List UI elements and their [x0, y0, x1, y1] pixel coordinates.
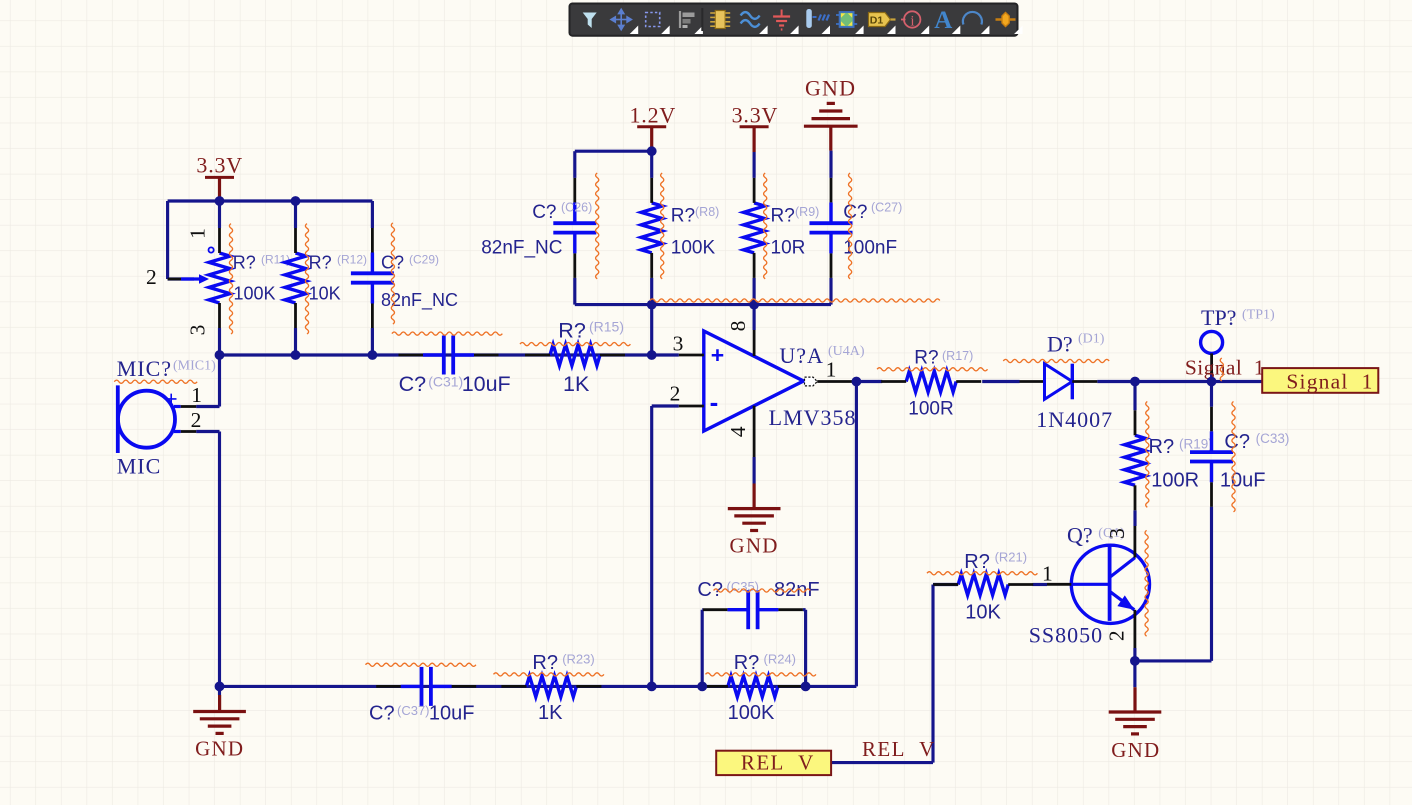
svg-text:R?: R?	[558, 319, 586, 343]
svg-text:(R21): (R21)	[995, 550, 1028, 565]
svg-text:10uF: 10uF	[1220, 470, 1266, 492]
svg-text:(R15): (R15)	[589, 319, 624, 335]
svg-text:(TP1): (TP1)	[1242, 308, 1275, 323]
svg-text:SS8050: SS8050	[1029, 623, 1103, 648]
svg-text:(C31): (C31)	[428, 374, 463, 390]
power 1.2V	[630, 103, 677, 152]
svg-text:A: A	[934, 7, 952, 34]
power GND top-right (flipped)	[804, 75, 858, 150]
resistor R15 1K	[525, 319, 625, 397]
svg-text:R?: R?	[671, 205, 695, 226]
svg-text:(C29): (C29)	[409, 253, 439, 267]
svg-text:(R23): (R23)	[562, 652, 595, 667]
svg-text:(R24): (R24)	[764, 652, 797, 667]
svg-text:i: i	[910, 14, 914, 30]
wire R8/C26 bottom node rail	[575, 278, 831, 355]
svg-text:Signal 1: Signal 1	[1286, 370, 1373, 394]
svg-text:C?: C?	[369, 703, 395, 725]
svg-text:4: 4	[726, 426, 750, 437]
svg-text:MIC: MIC	[117, 454, 162, 479]
wire TP1 stub	[1210, 372, 1213, 382]
svg-text:(U4A): (U4A)	[828, 344, 865, 359]
capacitor C33 10uF	[1190, 407, 1289, 507]
capacitor C35 82nF	[697, 579, 819, 629]
svg-text:C?: C?	[532, 202, 556, 223]
transistor Q1 SS8050	[1029, 523, 1150, 648]
svg-text:3: 3	[1105, 528, 1129, 539]
svg-text:C?: C?	[697, 579, 723, 601]
svg-text:REL V: REL V	[862, 737, 936, 761]
svg-text:(C33): (C33)	[1256, 431, 1290, 446]
svg-text:D1: D1	[870, 15, 884, 27]
svg-text:(C27): (C27)	[871, 201, 902, 215]
svg-text:(R9): (R9)	[795, 205, 819, 219]
resistor R9 10R	[744, 178, 820, 278]
svg-text:U?A: U?A	[779, 343, 824, 368]
wire output net	[856, 382, 1262, 687]
resistor R23 1K	[501, 652, 601, 725]
svg-text:10R: 10R	[771, 238, 806, 259]
svg-text:10K: 10K	[965, 602, 1001, 624]
svg-text:100K: 100K	[234, 284, 276, 304]
svg-text:R?: R?	[964, 551, 990, 573]
svg-text:2: 2	[191, 408, 202, 432]
svg-text:10uF: 10uF	[429, 703, 475, 725]
svg-text:C?: C?	[399, 372, 427, 396]
wire GND stub to C27	[829, 151, 832, 178]
svg-text:82nF_NC: 82nF_NC	[481, 238, 562, 259]
svg-text:3.3V: 3.3V	[196, 153, 243, 178]
wire C35 bypass loop	[702, 610, 805, 687]
svg-text:1: 1	[191, 383, 202, 407]
wire bottom feedback rail	[220, 685, 857, 688]
svg-text:100K: 100K	[728, 702, 775, 724]
svg-text:1.2V: 1.2V	[630, 103, 677, 128]
svg-text:(C26): (C26)	[561, 201, 592, 215]
svg-text:GND: GND	[730, 533, 779, 557]
svg-text:C?: C?	[1224, 431, 1250, 453]
capacitor C31 10uF	[399, 336, 511, 397]
svg-text:+: +	[711, 342, 724, 368]
svg-text:1K: 1K	[563, 372, 590, 396]
svg-text:(R17): (R17)	[942, 349, 973, 363]
resistor R21 10K	[933, 550, 1033, 624]
svg-text:100R: 100R	[1151, 469, 1199, 491]
wire R19 branch	[1133, 382, 1136, 527]
diode D1 1N4007	[1020, 331, 1114, 432]
svg-text:10uF: 10uF	[462, 372, 511, 396]
wire REL_V to R21	[831, 585, 1047, 763]
wire input net (mic to op-amp pin 3)	[220, 328, 679, 355]
wire 3.3V stub to R9	[753, 152, 756, 178]
microphone MIC1	[117, 356, 216, 479]
svg-text:MIC?: MIC?	[117, 356, 172, 381]
net label REL_V	[862, 737, 936, 761]
svg-text:3.3V: 3.3V	[732, 103, 779, 128]
svg-text:R?: R?	[1149, 436, 1175, 458]
resistor R17 100R	[881, 347, 981, 419]
svg-text:GND: GND	[805, 75, 856, 100]
capacitor C37 10uF	[369, 667, 476, 725]
svg-text:LMV358: LMV358	[769, 405, 857, 430]
svg-text:1: 1	[186, 228, 210, 239]
svg-text:10K: 10K	[309, 284, 341, 304]
svg-text:(R19): (R19)	[1179, 437, 1213, 452]
power 3.3V top	[732, 103, 779, 152]
resistor R12 10K	[285, 228, 367, 328]
svg-text:GND: GND	[1111, 738, 1160, 762]
svg-text:100R: 100R	[908, 399, 953, 420]
svg-text:Q?: Q?	[1067, 523, 1093, 548]
svg-text:8: 8	[726, 321, 750, 332]
svg-text:3: 3	[673, 332, 684, 356]
svg-text:+: +	[159, 393, 184, 406]
toolbar	[570, 4, 1023, 36]
power 3.3V left	[196, 153, 243, 201]
svg-text:(R11): (R11)	[261, 253, 290, 267]
svg-text:(R8): (R8)	[695, 205, 719, 219]
svg-text:C?: C?	[843, 202, 867, 223]
wire op-amp pin2 to feedback node	[652, 406, 679, 686]
svg-text:(MIC1): (MIC1)	[173, 359, 216, 374]
op-amp U1 LMV358	[670, 321, 865, 457]
svg-text:(R12): (R12)	[337, 253, 367, 267]
capacitor C27 100nF	[810, 178, 903, 278]
wire 1.2V node to C26/R8	[575, 151, 652, 178]
resistor R24 100K	[703, 652, 803, 725]
svg-text:1: 1	[826, 358, 837, 382]
svg-text:1K: 1K	[538, 702, 563, 724]
capacitor C29 82nF_NC	[351, 228, 458, 328]
resistor R8 100K	[641, 178, 719, 278]
svg-text:R?: R?	[734, 652, 760, 674]
test point TP1	[1201, 305, 1275, 374]
resistor R19 100R	[1125, 410, 1213, 510]
port REL_V	[716, 751, 831, 776]
compile error squiggles	[114, 173, 1235, 676]
ground GND under mic rail	[193, 686, 246, 760]
svg-text:2: 2	[1105, 630, 1129, 641]
svg-text:(D1): (D1)	[1078, 332, 1105, 347]
ground GND under op-amp symbol	[728, 484, 781, 558]
svg-text:3: 3	[186, 325, 210, 336]
ground GND under transistor	[1109, 687, 1162, 762]
svg-text:R?: R?	[309, 252, 332, 272]
svg-text:1N4007: 1N4007	[1036, 407, 1113, 432]
wire op-amp pin4 to GND	[753, 457, 756, 484]
svg-text:R?: R?	[771, 205, 795, 226]
potentiometer R11 100K	[146, 228, 290, 335]
svg-text:1: 1	[1042, 561, 1053, 585]
net label Signal_1	[1185, 356, 1265, 380]
wire mic pin1 to input node	[196, 355, 219, 407]
svg-text:2: 2	[670, 382, 681, 406]
svg-text:GND: GND	[195, 737, 244, 761]
svg-text:REL V: REL V	[741, 751, 815, 775]
svg-text:R?: R?	[532, 652, 558, 674]
wire C33 branch	[1135, 382, 1212, 661]
svg-text:(C37): (C37)	[397, 703, 430, 718]
svg-text:R?: R?	[233, 252, 256, 272]
port Signal_1	[1262, 368, 1378, 394]
svg-text:-: -	[710, 387, 719, 417]
svg-text:Signal 1: Signal 1	[1185, 356, 1265, 380]
capacitor C26 82nF_NC	[481, 178, 596, 278]
wire mic pin2 to ground rail	[196, 432, 219, 687]
wire 3.3V rail top-left	[168, 201, 373, 279]
svg-text:TP?: TP?	[1201, 305, 1236, 330]
svg-text:R?: R?	[914, 347, 938, 368]
svg-text:100K: 100K	[671, 238, 716, 259]
wire emitter to GND node	[1133, 648, 1136, 687]
svg-text:2: 2	[146, 265, 157, 289]
svg-text:D?: D?	[1047, 331, 1073, 356]
